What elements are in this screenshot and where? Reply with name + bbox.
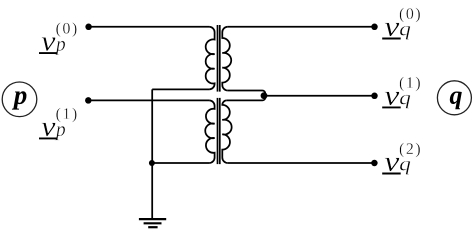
node vq2 terminal dot [371,160,378,167]
wire node vq2 to winding L4 [228,162,375,164]
label vp1 [39,108,77,141]
transformer T1 core [218,25,220,92]
wire winding L2 to junction node [228,91,265,96]
junction node of secondary windings [261,92,268,99]
node vq1 terminal dot [371,93,378,100]
transformer T2 core [218,98,220,164]
label vq0 [382,8,420,40]
port label q [437,81,471,115]
node vp0 terminal dot [85,24,92,31]
wire winding L1 to ground riser [152,88,209,90]
ground [139,219,166,227]
inductor L4 (T2 secondary winding) [222,100,231,163]
wire node vq0 to winding L2 [228,26,375,28]
inductor L1 (T1 primary winding) [206,27,215,90]
label vp0 [39,22,77,55]
label vq1 [382,77,420,109]
inductor L2 (T1 secondary winding) [222,27,231,91]
wire winding L3 to ground junction [152,162,209,164]
junction node on ground riser [149,160,155,166]
node vp1 terminal dot [85,97,92,104]
inductor L3 (T2 primary winding) [205,100,214,163]
port label p [2,82,37,117]
wire winding L4 to junction node [227,96,265,100]
wire junction node to node vq1 [264,95,375,97]
label vq2 [382,143,420,175]
wire node vp0 to winding L1 [89,26,210,28]
wire node vp1 to winding L3 [88,99,209,101]
node vq0 terminal dot [371,24,378,31]
wire ground riser [151,89,153,219]
